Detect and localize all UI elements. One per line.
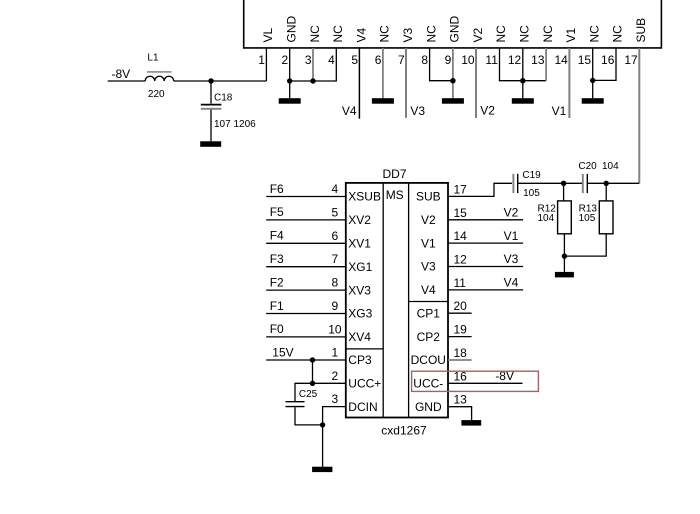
connector pin 12 (NC): label, number, wire: [508, 25, 532, 99]
svg-text:CP1: CP1: [417, 306, 441, 320]
IC pin 3 (DCIN): wire, pin number: [323, 392, 378, 425]
svg-text:UCC-: UCC-: [413, 377, 443, 391]
svg-text:VL: VL: [261, 27, 275, 42]
connector pin 9 (GND): label, number, wire: [445, 16, 462, 99]
svg-text:7: 7: [398, 53, 405, 67]
IC pin 11 (V4): pin number, wire, net label V4: [421, 276, 523, 298]
svg-text:220: 220: [148, 89, 165, 100]
connector pin 7 (V3): label, number, wire: [398, 27, 415, 117]
svg-text:11: 11: [485, 53, 498, 67]
svg-text:4: 4: [332, 182, 339, 196]
svg-text:9: 9: [445, 53, 452, 67]
svg-text:2: 2: [332, 369, 339, 383]
svg-text:V4: V4: [354, 27, 368, 42]
svg-text:10: 10: [328, 322, 342, 336]
svg-text:17: 17: [624, 53, 638, 67]
svg-text:DD7: DD7: [383, 167, 407, 181]
node: pin 11-12-13 junction: [520, 78, 525, 83]
svg-text:6: 6: [375, 53, 382, 67]
svg-text:NC: NC: [611, 25, 625, 43]
svg-text:1: 1: [258, 53, 265, 67]
svg-text:V3: V3: [401, 27, 415, 42]
svg-text:2: 2: [282, 53, 289, 67]
IC pin 2 (UCC+): wire, pin number: [313, 369, 382, 391]
svg-text:6: 6: [332, 229, 339, 243]
connector pin 1 (VL): label, number, wire: [258, 27, 275, 81]
wire C20 to SUB net corner: [587, 182, 606, 184]
svg-text:V3: V3: [421, 260, 436, 274]
svg-text:XV2: XV2: [348, 213, 371, 227]
svg-text:GND: GND: [448, 16, 462, 43]
ground below R12/R13: [555, 272, 574, 278]
capacitor C20: [583, 174, 588, 193]
wire C25 bottom to DCIN/ground junction: [295, 407, 323, 425]
svg-text:F0: F0: [270, 322, 284, 336]
svg-text:7: 7: [332, 252, 339, 266]
IC pin 20 (CP1): pin number, stub wire: [417, 299, 472, 320]
svg-text:cxd1267: cxd1267: [381, 424, 427, 438]
wire C19 to C20: [517, 182, 582, 184]
svg-text:NC: NC: [331, 25, 345, 43]
svg-text:V2: V2: [480, 104, 495, 118]
IC pin 10 (XV4): net label F0, wire, pin number: [266, 322, 371, 344]
IC pin 7 (XG1): net label F3, wire, pin number: [266, 252, 372, 274]
svg-text:NC: NC: [518, 25, 532, 43]
svg-text:15V: 15V: [272, 345, 293, 359]
svg-text:3: 3: [332, 392, 339, 406]
IC pin 6 (XV1): net label F4, wire, pin number: [266, 229, 371, 251]
node: UCC+ / C25 junction: [310, 381, 315, 386]
connector pin 2 (GND): label, number, wire: [282, 16, 299, 99]
svg-text:V3: V3: [504, 252, 519, 266]
node: 15V / CP3 junction: [310, 357, 315, 362]
IC pin 14 (V1): pin number, wire, net label V1: [421, 229, 523, 251]
svg-text:8: 8: [332, 276, 339, 290]
ground at connector pin 9: [442, 98, 464, 104]
wire UCC+ junction to C25 top: [295, 383, 313, 401]
svg-text:V4: V4: [342, 104, 357, 118]
wire 15V junction down to UCC+ junction: [312, 360, 314, 383]
svg-text:13: 13: [531, 53, 545, 67]
svg-text:V2: V2: [504, 206, 519, 220]
node: pin 15-16 junction: [590, 78, 595, 83]
svg-text:DCIN: DCIN: [348, 400, 377, 414]
resistor R13: [599, 201, 613, 234]
connector pin 6 (NC): label, number, wire: [375, 25, 392, 99]
svg-text:19: 19: [454, 323, 468, 337]
IC pin 18 (DCOU): pin number, stub wire: [411, 346, 472, 367]
svg-text:105: 105: [523, 188, 540, 199]
wire junction down to R13: [605, 183, 607, 201]
ground at connector pin 15: [582, 98, 604, 104]
svg-text:5: 5: [332, 205, 339, 219]
IC pin 12 (V3): pin number, wire, net label V3: [421, 252, 523, 274]
wire junction down to ground: [322, 425, 324, 467]
svg-text:-8V: -8V: [112, 67, 131, 81]
svg-text:107 1206: 107 1206: [214, 119, 256, 130]
svg-text:GND: GND: [415, 400, 442, 414]
connector pin 4 (NC): label, number, wire to pin-2 ground net: [290, 25, 345, 81]
IC pin 5 (XV2): net label F5, wire, pin number: [266, 205, 371, 227]
node: pins 2-3-4 junction at pin 2: [287, 78, 292, 83]
svg-text:XG3: XG3: [348, 307, 372, 321]
svg-text:F5: F5: [270, 205, 284, 219]
node: C25 / DCIN / ground junction: [320, 422, 325, 427]
ground at IC pin 13: [461, 420, 481, 426]
connector pin 8 (NC): label, number, wire to pin-9 ground net: [421, 25, 453, 81]
wire junction down to ground: [563, 256, 565, 272]
svg-text:NC: NC: [541, 25, 555, 43]
svg-text:XG1: XG1: [348, 260, 372, 274]
svg-text:V1: V1: [552, 104, 567, 118]
svg-text:XV1: XV1: [348, 237, 371, 251]
svg-text:C20: C20: [578, 161, 597, 172]
svg-text:1: 1: [332, 346, 339, 360]
connector pin 13 (NC): label, number, wire: [531, 25, 555, 81]
connector pin 17 (SUB): label, number, wire down to C19/C20 net: [606, 18, 648, 183]
connector pin 11 (NC): label, number, wire to pin-12 ground net: [485, 25, 546, 81]
svg-text:F2: F2: [270, 275, 284, 289]
svg-text:8: 8: [421, 53, 428, 67]
node: pin 8-9 junction: [450, 78, 455, 83]
svg-text:NC: NC: [424, 25, 438, 43]
svg-text:18: 18: [454, 346, 468, 360]
svg-text:UCC+: UCC+: [348, 377, 381, 391]
svg-text:3: 3: [305, 53, 312, 67]
svg-text:13: 13: [454, 393, 468, 407]
svg-text:NC: NC: [494, 25, 508, 43]
svg-text:15: 15: [454, 206, 468, 220]
IC pin 19 (CP2): pin number, stub wire: [417, 323, 472, 344]
node: R12/R13 ground junction: [562, 253, 567, 258]
svg-text:XV4: XV4: [348, 330, 371, 344]
svg-text:DCOU: DCOU: [411, 353, 446, 367]
svg-text:104: 104: [538, 213, 555, 224]
IC pin 13 (GND): pin number, wire to ground: [415, 393, 472, 420]
IC pin 1 (CP3): net label 15V, wire, pin number: [266, 345, 372, 367]
svg-text:16: 16: [601, 53, 615, 67]
svg-text:17: 17: [454, 183, 468, 197]
svg-text:C19: C19: [522, 170, 541, 181]
ground below C25/DCIN junction: [312, 467, 332, 472]
svg-text:CP3: CP3: [348, 353, 372, 367]
svg-text:L1: L1: [147, 53, 159, 64]
svg-text:NC: NC: [587, 25, 601, 43]
inductor L1: [145, 71, 174, 81]
svg-text:C18: C18: [214, 93, 233, 104]
svg-text:14: 14: [554, 53, 568, 67]
svg-text:C25: C25: [299, 389, 318, 400]
node: C19/C20/R12 junction: [561, 181, 566, 186]
ground below C18: [200, 141, 221, 147]
capacitor C25: [286, 402, 305, 407]
connector pin 3 (NC): label, number, wire: [305, 25, 322, 81]
highlight box around UCC- pin 16: [412, 371, 539, 391]
svg-text:XSUB: XSUB: [348, 190, 381, 204]
svg-text:20: 20: [454, 299, 468, 313]
svg-text:V1: V1: [504, 229, 519, 243]
svg-text:12: 12: [508, 53, 522, 67]
svg-text:NC: NC: [378, 25, 392, 43]
IC pin 8 (XV3): net label F2, wire, pin number: [266, 275, 371, 297]
connector pin 5 (V4): label, number, wire: [351, 27, 368, 118]
svg-text:4: 4: [328, 53, 335, 67]
svg-text:V2: V2: [421, 213, 436, 227]
svg-text:V4: V4: [504, 276, 519, 290]
svg-text:SUB: SUB: [416, 190, 441, 204]
IC pin 17 (SUB): pin number, wire up to C19: [416, 183, 512, 204]
node: pin 3 junction: [310, 78, 315, 83]
svg-text:104: 104: [602, 161, 619, 172]
ground at connector pin 6: [372, 98, 394, 104]
svg-text:XV3: XV3: [348, 283, 371, 297]
node: C20/R13/SUB junction: [604, 181, 609, 186]
connector pin 14 (V1): label, number, wire: [554, 27, 578, 118]
wire R13 bottom to ground junction: [564, 234, 606, 256]
svg-text:F4: F4: [270, 229, 284, 243]
IC pin 15 (V2): pin number, wire, net label V2: [421, 206, 523, 228]
connector pin 10 (V2): label, number, wire: [461, 27, 485, 118]
svg-text:F3: F3: [270, 252, 284, 266]
svg-text:15: 15: [578, 53, 592, 67]
ground at connector pin 2: [279, 98, 301, 104]
svg-text:F6: F6: [270, 182, 284, 196]
wire R12 bottom to ground junction: [563, 234, 565, 256]
svg-text:11: 11: [454, 276, 467, 290]
IC pin 16 (UCC-): pin number, wire, net label -8V: [413, 369, 522, 391]
svg-text:V4: V4: [421, 283, 436, 297]
svg-text:SUB: SUB: [634, 18, 648, 43]
svg-text:105: 105: [579, 213, 596, 224]
IC DD7 cxd1267 outline with internal dividers: [346, 183, 448, 418]
wire junction down to R12: [563, 183, 565, 201]
IC pin 9 (XG3): net label F1, wire, pin number: [266, 299, 372, 321]
svg-text:9: 9: [332, 299, 339, 313]
wire L1 to connector pin 1: [174, 80, 267, 82]
wire -8V input to L1: [108, 80, 146, 82]
capacitor C19: [513, 174, 517, 193]
ground at connector pin 12: [512, 98, 534, 104]
svg-text:14: 14: [454, 229, 468, 243]
resistor R12: [558, 201, 572, 234]
svg-text:MS: MS: [386, 188, 404, 202]
svg-text:V3: V3: [410, 104, 425, 118]
svg-text:V1: V1: [564, 27, 578, 42]
connector pin 16 (NC): label, number, wire to pin-15 ground net: [593, 25, 625, 81]
node: C18 tap junction: [208, 78, 213, 83]
svg-text:5: 5: [351, 53, 358, 67]
connector pin 15 (NC): label, number, wire: [578, 25, 602, 99]
connector box (17-pin header): [244, 0, 662, 48]
svg-text:V1: V1: [421, 236, 436, 250]
svg-text:V2: V2: [471, 27, 485, 42]
svg-text:GND: GND: [285, 16, 299, 43]
svg-text:NC: NC: [308, 25, 322, 43]
IC pin 4 (XSUB): net label F6, wire, pin number: [266, 182, 381, 204]
svg-text:F1: F1: [270, 299, 284, 313]
svg-text:12: 12: [454, 253, 468, 267]
capacitor C18: [201, 81, 222, 141]
svg-text:CP2: CP2: [417, 330, 441, 344]
svg-text:10: 10: [461, 53, 475, 67]
